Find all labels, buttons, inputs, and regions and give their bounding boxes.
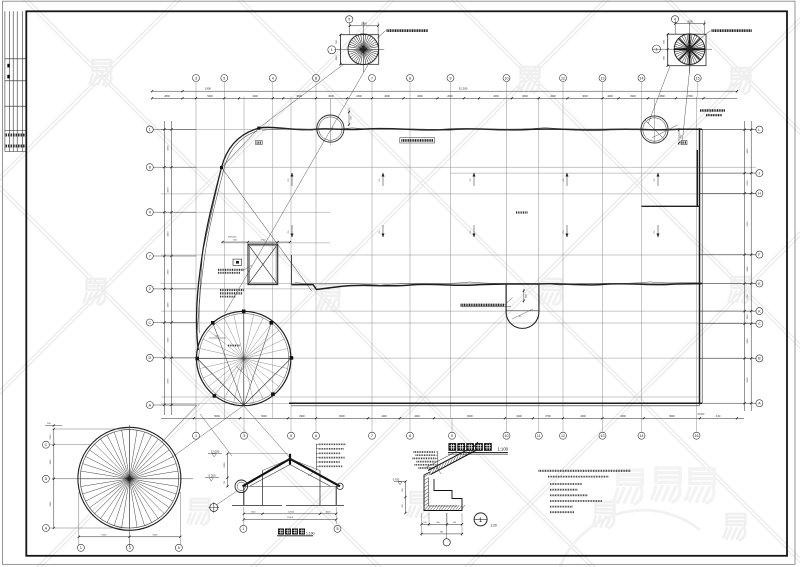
svg-text:12: 12	[561, 434, 565, 438]
wheel bottom dims	[79, 536, 181, 538]
svg-text:4500: 4500	[747, 377, 749, 383]
svg-text:2900: 2900	[299, 415, 305, 418]
svg-text:11: 11	[537, 434, 541, 438]
top grid bubbles	[195, 82, 197, 97]
svg-text:1: 1	[656, 47, 658, 51]
cornice detail slope band	[428, 446, 475, 471]
notes block	[539, 470, 632, 472]
corner node marks	[257, 127, 260, 130]
leader lines to plan	[259, 64, 344, 128]
svg-text:2800: 2800	[164, 95, 170, 98]
svg-text:6: 6	[315, 434, 317, 438]
dome skylight 1	[317, 115, 344, 142]
cornice axis circle	[446, 513, 448, 539]
svg-text:9: 9	[450, 76, 452, 80]
svg-text:8000: 8000	[467, 415, 473, 418]
svg-text:4700: 4700	[168, 378, 170, 384]
wheel left bubbles	[42, 441, 49, 448]
svg-text:3.20: 3.20	[716, 415, 721, 418]
drawing title	[448, 443, 456, 451]
svg-text:10: 10	[505, 434, 509, 438]
svg-text:3500: 3500	[168, 337, 170, 343]
svg-text:3400: 3400	[50, 459, 52, 465]
svg-text:4000: 4000	[168, 145, 170, 151]
grid bubble left (detail R)	[653, 45, 661, 53]
svg-text:7: 7	[371, 76, 373, 80]
svg-text:2800: 2800	[659, 95, 665, 98]
rim markers	[195, 357, 199, 361]
circular hall enlarged detail (wheel)	[52, 478, 193, 480]
svg-text:1600: 1600	[607, 95, 613, 98]
small dim near circle top	[209, 337, 226, 339]
svg-text:51.200: 51.200	[459, 87, 468, 91]
svg-text:H: H	[758, 192, 761, 196]
half dome lightwell	[506, 284, 539, 328]
svg-text:D: D	[148, 356, 151, 360]
leader annotation top-left	[377, 31, 386, 39]
svg-text:3: 3	[129, 546, 131, 550]
right grid bubbles	[756, 126, 763, 133]
svg-text:2%: 2%	[288, 178, 290, 181]
svg-text:2000: 2000	[747, 180, 749, 186]
svg-text:3: 3	[195, 76, 197, 80]
svg-text:5: 5	[337, 527, 339, 531]
svg-text:10: 10	[505, 76, 509, 80]
svg-text:2600: 2600	[522, 95, 528, 98]
svg-text:C: C	[148, 321, 151, 325]
svg-text:2%: 2%	[288, 230, 290, 233]
svg-text:7: 7	[149, 254, 151, 258]
svg-text:8000: 8000	[339, 415, 345, 418]
section bubbles	[243, 524, 245, 525]
right dimension lines	[744, 121, 746, 411]
skylight fan detail top-left	[362, 22, 364, 73]
svg-text:2%: 2%	[379, 178, 381, 181]
cornice leader stack	[414, 451, 436, 453]
svg-text:3450: 3450	[747, 338, 749, 344]
right wing step	[642, 205, 700, 207]
svg-text:2700: 2700	[545, 415, 551, 418]
svg-text:2900: 2900	[630, 95, 636, 98]
svg-text:5000: 5000	[153, 534, 159, 536]
section caption	[278, 529, 284, 535]
svg-text:7: 7	[371, 434, 373, 438]
svg-text:3000: 3000	[687, 19, 693, 23]
svg-text:4: 4	[272, 76, 274, 80]
cornice left dim	[405, 482, 407, 514]
svg-text:5000: 5000	[261, 415, 267, 418]
svg-text:4000: 4000	[384, 95, 390, 98]
circular hall skylight	[197, 311, 291, 405]
svg-text:2000: 2000	[50, 434, 52, 440]
dome skylight 2	[654, 99, 656, 143]
svg-text:4400: 4400	[414, 415, 420, 418]
svg-text:2%: 2%	[654, 178, 656, 181]
section dims	[244, 513, 336, 515]
svg-text:1500: 1500	[251, 511, 257, 513]
svg-text:4000: 4000	[493, 95, 499, 98]
ridge diagonal	[222, 168, 312, 292]
section truss inner	[250, 465, 290, 487]
svg-text:8: 8	[409, 434, 411, 438]
slope arrows row2	[291, 225, 293, 237]
svg-text:15000: 15000	[287, 517, 294, 519]
svg-text:2%: 2%	[379, 230, 381, 233]
leaders from circle to details	[171, 406, 244, 458]
svg-text:12.000: 12.000	[211, 449, 220, 453]
small boxed mark A	[256, 140, 263, 144]
svg-text:6800: 6800	[224, 462, 226, 468]
slope arrows row1	[291, 173, 293, 186]
two-line label right	[700, 109, 725, 111]
building bottom edge	[289, 402, 702, 404]
svg-text:4500: 4500	[168, 187, 170, 193]
svg-text:4400: 4400	[168, 231, 170, 237]
svg-text:13: 13	[601, 434, 605, 438]
svg-text:2400: 2400	[550, 95, 556, 98]
svg-text:4300: 4300	[580, 415, 586, 418]
svg-text:2750: 2750	[747, 294, 749, 300]
top roof edge wavy	[259, 127, 702, 130]
svg-text:4400: 4400	[381, 415, 387, 418]
svg-text:L: L	[758, 128, 760, 132]
column grid vertical lines	[195, 97, 197, 419]
left curved parapet	[196, 128, 258, 350]
svg-text:4300: 4300	[620, 415, 626, 418]
svg-text:4000: 4000	[417, 95, 423, 98]
wheel bottom bubbles	[77, 544, 84, 551]
svg-text:3000: 3000	[328, 95, 334, 98]
svg-text:51200: 51200	[698, 413, 705, 416]
svg-text:2%: 2%	[563, 230, 565, 233]
svg-text:1:20: 1:20	[490, 524, 497, 528]
svg-text:1:100: 1:100	[306, 531, 315, 535]
svg-text:2: 2	[149, 287, 151, 291]
bottom dimension line	[161, 417, 744, 419]
svg-text:4900: 4900	[50, 501, 52, 507]
svg-text:J: J	[759, 171, 761, 175]
svg-text:1900: 1900	[205, 87, 211, 91]
svg-text:4: 4	[674, 18, 676, 22]
svg-text:2%: 2%	[563, 178, 565, 181]
svg-text:14: 14	[640, 76, 644, 80]
svg-text:2%: 2%	[654, 230, 656, 233]
section eave circles	[235, 480, 248, 493]
lightwell label	[461, 304, 505, 307]
svg-text:5: 5	[178, 546, 180, 550]
svg-text:2700: 2700	[261, 240, 267, 242]
svg-text:4400: 4400	[747, 148, 749, 154]
svg-text:1: 1	[195, 434, 197, 438]
svg-text:12000: 12000	[288, 511, 295, 513]
stair shaft with X brace	[248, 244, 278, 284]
svg-text:2000: 2000	[361, 22, 367, 26]
svg-text:8000: 8000	[669, 415, 675, 418]
middle roof edge wavy	[292, 284, 703, 290]
svg-text:8: 8	[409, 76, 411, 80]
axis target symbol	[210, 504, 218, 512]
svg-text:5.200: 5.200	[209, 474, 216, 478]
svg-text:3: 3	[243, 434, 245, 438]
svg-text:13: 13	[601, 76, 605, 80]
svg-text:5: 5	[290, 434, 292, 438]
stair dim	[223, 241, 291, 243]
svg-text:9: 9	[451, 434, 453, 438]
boxed label mid-top	[400, 138, 435, 143]
parapet chord lines	[222, 128, 259, 167]
leader annotation top-right	[701, 31, 711, 38]
svg-text:D: D	[45, 477, 48, 481]
stair annotations	[218, 269, 244, 271]
building right edge	[699, 128, 701, 404]
svg-text:2400: 2400	[356, 95, 362, 98]
left grid bubbles	[146, 126, 153, 133]
left dimension lines	[163, 121, 165, 415]
top dimension line 2	[152, 97, 737, 99]
cornice gutter profile	[424, 472, 462, 511]
svg-text:5400: 5400	[207, 95, 213, 98]
cornice bottom dims	[422, 523, 463, 525]
svg-text:3100: 3100	[516, 415, 522, 418]
wheel left dims	[53, 429, 55, 528]
grid bubble top (detail R)	[671, 16, 678, 23]
svg-text:16: 16	[695, 434, 699, 438]
svg-text:12: 12	[561, 76, 565, 80]
svg-text:14: 14	[640, 434, 644, 438]
svg-text:C: C	[758, 322, 761, 326]
svg-text:1: 1	[242, 527, 244, 531]
section columns	[243, 487, 245, 506]
detail number bubble	[474, 513, 487, 526]
watermark glyphs	[90, 60, 112, 86]
skylight fan detail top-right	[689, 23, 691, 74]
top dimension line 1	[152, 90, 737, 92]
svg-text:0.700: 0.700	[393, 477, 400, 481]
svg-text:5: 5	[223, 76, 225, 80]
svg-text:1: 1	[149, 128, 151, 132]
leaders to plan (right)	[648, 66, 670, 124]
svg-text:1: 1	[331, 48, 333, 52]
svg-text:600x600: 600x600	[228, 236, 237, 238]
wheel leader	[162, 405, 197, 442]
svg-text:4000: 4000	[582, 95, 588, 98]
svg-text:3400: 3400	[168, 302, 170, 308]
section 1-1 roof	[243, 459, 291, 487]
grid bubble 5 (detail)	[346, 16, 353, 23]
bottom grid bubbles	[195, 418, 197, 432]
svg-text:5000: 5000	[214, 415, 220, 418]
svg-text:15: 15	[696, 76, 700, 80]
svg-text:1250: 1250	[747, 314, 749, 320]
svg-text:1500: 1500	[326, 511, 332, 513]
svg-text:3000: 3000	[296, 95, 302, 98]
svg-text:5: 5	[348, 18, 350, 22]
svg-text:2%: 2%	[470, 178, 472, 181]
svg-text:1500: 1500	[336, 55, 338, 61]
svg-text:3300: 3300	[168, 269, 170, 275]
row grid horizontal lines	[161, 129, 756, 131]
svg-text:6100: 6100	[747, 221, 749, 227]
svg-text:4400: 4400	[252, 95, 258, 98]
svg-text:1:100: 1:100	[498, 447, 509, 452]
grid bubble 1 (detail)	[328, 46, 336, 54]
svg-text:2%: 2%	[470, 230, 472, 233]
svg-text:2700: 2700	[687, 95, 693, 98]
roof hatch small box	[233, 259, 242, 265]
title strip table	[4, 11, 6, 151]
hatch label small	[516, 211, 528, 213]
chords	[197, 359, 243, 406]
svg-text:8: 8	[149, 166, 151, 170]
svg-text:2800: 2800	[747, 266, 749, 272]
svg-text:1: 1	[80, 546, 82, 550]
svg-text:5000: 5000	[102, 534, 108, 536]
svg-text:4: 4	[149, 211, 151, 215]
section layer callout	[315, 444, 317, 471]
svg-text:6: 6	[315, 76, 317, 80]
svg-text:C: C	[45, 443, 48, 447]
